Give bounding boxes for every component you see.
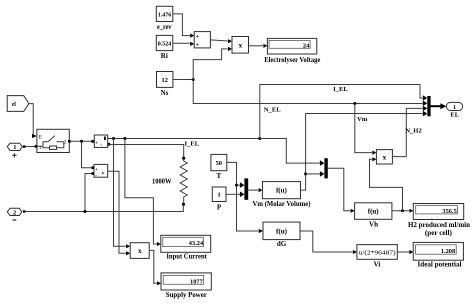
svg-text:1: 1 (217, 192, 220, 199)
svg-text:+: + (196, 43, 200, 49)
input port 2 (7, 208, 25, 220)
wire T to mux1 and dG (227, 162, 263, 233)
f(u) Vm Molar Volume (253, 182, 312, 208)
multiplier X2 (376, 150, 392, 164)
display Input Current 43.24 (161, 235, 211, 260)
wire mux2 to fVh (328, 168, 355, 213)
svg-text:f(u): f(u) (276, 187, 288, 195)
wire Vi to display1208 (397, 250, 413, 254)
wire sum to X1 (210, 39, 232, 43)
wire I_EL branch to mux2 (260, 139, 320, 164)
from tag el (7, 96, 29, 112)
wire mux to out port (431, 103, 447, 109)
current measurement CM (94, 135, 110, 147)
svg-text:x: x (239, 41, 243, 49)
svg-text:Ideal potential: Ideal potential (418, 261, 462, 269)
svg-text:43.24: 43.24 (189, 240, 204, 247)
svg-text:1: 1 (39, 145, 42, 151)
wire P to mux1 (226, 193, 240, 195)
svg-text:Supply Power: Supply Power (166, 291, 207, 299)
resistor 1000W (152, 157, 187, 206)
output port EL (446, 102, 462, 118)
wire Ns to X1 (173, 47, 232, 81)
wire el to switch E (29, 104, 37, 139)
constant T 50 (211, 154, 227, 180)
svg-text:(per cell): (per cell) (425, 229, 453, 237)
svg-text:P: P (217, 204, 222, 212)
wire Vh back to X2 (370, 157, 403, 211)
svg-text:50: 50 (216, 160, 222, 167)
svg-text:1.208: 1.208 (441, 248, 455, 255)
wire product to display1077 (149, 250, 161, 285)
svg-text:dG: dG (277, 240, 287, 248)
wire N_EL line (193, 80, 422, 114)
svg-text:1: 1 (453, 104, 456, 111)
wire rail to VM- (85, 172, 94, 211)
breaker switch SW (35, 129, 71, 152)
wire Vm branch to mux2 (306, 173, 320, 175)
svg-text:N_H2: N_H2 (405, 128, 422, 135)
constant e_rev 1.476 (156, 6, 173, 31)
wire mux1 to fVm (248, 188, 262, 192)
svg-text:Electrolyser Voltage: Electrolyser Voltage (264, 56, 320, 64)
product X3 (130, 243, 149, 259)
wire node to VM+ (82, 141, 95, 169)
svg-text:Vi: Vi (374, 260, 381, 268)
wire e_rev to sum (173, 14, 194, 38)
svg-text:x: x (138, 247, 142, 255)
wire I branch to display43 (125, 139, 161, 247)
svg-text:u/(2*96487): u/(2*96487) (359, 250, 396, 257)
wire Ri to sum (173, 42, 194, 46)
svg-text:f(u): f(u) (276, 227, 288, 235)
display Electrolyser Voltage 24 (264, 38, 320, 64)
f(u) Vh (355, 203, 392, 229)
wire I_EL up to mux (260, 85, 423, 139)
svg-text:Vm: Vm (357, 116, 368, 123)
wire switch to I-meas (71, 140, 94, 143)
wire Vh out to display356 (392, 209, 413, 213)
wire X1 to display (249, 44, 268, 48)
wire negative rail (25, 204, 184, 213)
svg-text:Input Current: Input Current (166, 252, 207, 260)
wire Vm riser (301, 114, 423, 191)
output mux (423, 95, 431, 116)
svg-text:EL: EL (450, 111, 459, 118)
svg-text:T: T (216, 172, 221, 180)
svg-text:2: 2 (13, 209, 16, 216)
svg-text:1: 1 (13, 144, 16, 151)
svg-text:Ri: Ri (161, 52, 168, 60)
svg-text:N_EL: N_EL (264, 107, 281, 114)
svg-text:1077: 1077 (190, 278, 204, 285)
svg-text:1000W: 1000W (152, 178, 172, 186)
svg-text:Vm (Molar Volume): Vm (Molar Volume) (253, 200, 312, 208)
svg-text:+: + (196, 34, 200, 40)
wire elec to resistor (108, 145, 183, 159)
svg-text:356.5: 356.5 (442, 208, 456, 215)
svg-text:el: el (12, 102, 17, 108)
sum block U1 (194, 32, 210, 49)
wire dG to Vi (300, 231, 357, 254)
voltage measurement VM (94, 164, 108, 179)
mux2 (320, 158, 328, 178)
multiplier X1 (232, 37, 249, 54)
input port 1 (7, 143, 25, 157)
constant Ns 12 (157, 72, 173, 98)
constant Ri 0.524 (156, 35, 173, 60)
svg-text:Ns: Ns (161, 89, 169, 97)
wire port1 to switch (25, 146, 35, 148)
wire I branch to product (114, 139, 131, 249)
display Supply Power 1077 (161, 273, 211, 299)
display Ideal potential 1.208 (413, 242, 463, 268)
svg-text:0.524: 0.524 (158, 40, 172, 47)
svg-text:12: 12 (162, 77, 168, 84)
mux1 (240, 178, 248, 199)
wire X2 to mux N_H2 (392, 108, 422, 156)
wire V to product (108, 171, 130, 255)
svg-text:+: + (95, 168, 98, 173)
constant P 1 (212, 187, 226, 212)
svg-text:1.476: 1.476 (158, 11, 172, 18)
svg-text:I_EL: I_EL (184, 141, 199, 148)
gain Vi u/(2*96487) (357, 245, 397, 269)
svg-text:+: + (95, 141, 98, 146)
svg-text:e_rev: e_rev (157, 23, 172, 31)
svg-text:f(u): f(u) (368, 208, 380, 216)
f(u) dG (263, 222, 300, 248)
svg-text:x: x (383, 153, 387, 161)
wire I signal I_EL (108, 137, 262, 148)
svg-text:I_EL: I_EL (333, 86, 348, 93)
wire N_EL down to X2 (355, 104, 377, 155)
svg-text:Vh: Vh (369, 221, 378, 229)
display H2 produced 356.5 (408, 204, 470, 237)
svg-text:24: 24 (303, 43, 310, 50)
